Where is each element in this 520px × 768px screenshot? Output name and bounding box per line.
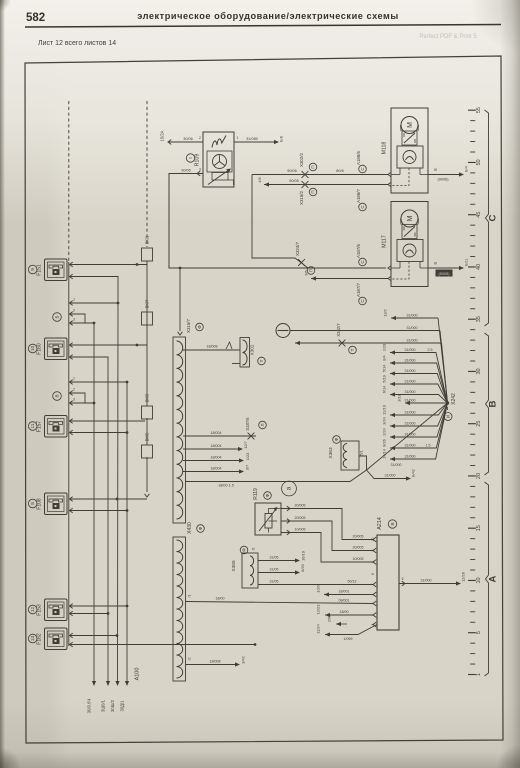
- svg-text:12/7: 12/7: [243, 441, 248, 449]
- svg-text:18/004: 18/004: [211, 467, 222, 471]
- page number 582: [26, 12, 45, 24]
- svg-text:20/005: 20/005: [295, 504, 306, 508]
- wire X242 ray 6/14: [382, 385, 448, 403]
- svg-text:X242: X242: [451, 393, 457, 405]
- svg-text:7: 7: [371, 583, 375, 585]
- svg-text:A100: A100: [135, 668, 141, 681]
- wire X365 out3 to A214 pin7: [258, 580, 376, 587]
- wire A214 pin4: [316, 615, 378, 641]
- svg-text:A214: A214: [377, 517, 383, 530]
- svg-text:13: 13: [30, 636, 35, 642]
- wire F157.1: [70, 419, 146, 424]
- svg-text:31/000: 31/000: [421, 579, 432, 583]
- coordinate ruler: [468, 107, 482, 676]
- svg-text:31/000: 31/000: [405, 348, 416, 352]
- A214 pin numbers: [371, 538, 375, 626]
- svg-text:X342/7: X342/7: [336, 323, 341, 337]
- svg-text:4/6: 4/6: [258, 177, 262, 182]
- svg-text:III: III: [434, 262, 437, 266]
- svg-text:F108: F108: [37, 498, 43, 510]
- wire M118 output: [428, 166, 469, 181]
- svg-text:18/008: 18/008: [207, 345, 218, 349]
- wire X242 ray 8/26: [382, 403, 448, 450]
- wire A214 output pin5: [399, 572, 466, 586]
- wire F153.1: [70, 604, 129, 609]
- svg-text:t: t: [188, 157, 193, 159]
- svg-text:C: C: [488, 214, 499, 221]
- wire R109 pin3 big L to M117: [169, 169, 386, 269]
- splice box ВК/1: [142, 235, 153, 261]
- wire M117 output: [428, 258, 469, 276]
- wire X242 ray 13/2: [383, 309, 448, 403]
- svg-text:Л: Л: [260, 423, 265, 426]
- node cluster 2: [53, 377, 129, 406]
- svg-text:III: III: [434, 168, 437, 172]
- wire F151.2 down to V3: [70, 274, 119, 303]
- svg-text:10/005: 10/005: [353, 557, 364, 561]
- svg-text:31/05: 31/05: [270, 556, 279, 560]
- svg-text:(9006): (9006): [438, 178, 450, 182]
- svg-text:10/005: 10/005: [295, 528, 306, 532]
- wire F151.1 to splice line: [70, 262, 148, 267]
- svg-text:M: M: [407, 215, 414, 221]
- control unit A214: [377, 517, 399, 630]
- svg-text:35: 35: [476, 316, 482, 322]
- svg-text:Ф: Ф: [334, 437, 339, 441]
- svg-text:8: 8: [30, 502, 35, 505]
- svg-text:Б: Б: [55, 315, 60, 318]
- motor unit M118: [382, 108, 429, 193]
- svg-text:5: 5: [476, 631, 482, 634]
- svg-text:20/005: 20/005: [353, 546, 364, 550]
- wire A214 pin1: [316, 584, 377, 597]
- splice box ВК/5: [142, 393, 153, 419]
- svg-text:40: 40: [476, 264, 482, 270]
- svg-text:18/004: 18/004: [211, 431, 222, 435]
- svg-text:Ф: Ф: [242, 548, 247, 552]
- svg-text:8/4: 8/4: [382, 354, 387, 360]
- svg-text:582: 582: [26, 12, 45, 24]
- resistor unit R109: [186, 132, 238, 187]
- wire X131 S187/6: [183, 417, 266, 440]
- svg-text:31/080: 31/080: [246, 137, 258, 141]
- connector X365: [231, 546, 258, 588]
- svg-text:Ф: Ф: [197, 325, 202, 329]
- svg-text:6/14: 6/14: [382, 385, 387, 393]
- svg-text:ВК/5: ВК/5: [145, 393, 150, 402]
- svg-text:20/005: 20/005: [295, 516, 306, 520]
- svg-text:2: 2: [73, 388, 75, 392]
- wire X365 out1: [258, 551, 306, 562]
- wire X242 ray 3/24: [382, 403, 448, 428]
- svg-text:1/059: 1/059: [344, 637, 353, 641]
- svg-text:31/05: 31/05: [270, 580, 279, 584]
- wire A214 pin2: [316, 605, 377, 618]
- svg-text:1/20: 1/20: [316, 584, 321, 592]
- wire X365 out2: [258, 563, 305, 574]
- svg-text:31/000: 31/000: [405, 422, 416, 426]
- wire X242 ray 5/19: [382, 375, 448, 403]
- splice node X242: [444, 393, 457, 421]
- svg-text:Т: Т: [350, 348, 355, 351]
- wire R119 out1 to A214 pin10: [281, 504, 376, 542]
- sheet caption: [38, 40, 116, 47]
- zone bracket A: [485, 482, 499, 676]
- svg-text:30/06: 30/06: [181, 169, 191, 173]
- svg-text:X315/2: X315/2: [299, 190, 304, 204]
- svg-text:/1: /1: [188, 595, 192, 598]
- svg-text:11/24: 11/24: [316, 623, 321, 633]
- svg-text:M118: M118: [382, 142, 388, 155]
- svg-text:а: а: [286, 486, 293, 490]
- svg-text:20/005: 20/005: [353, 535, 364, 539]
- svg-text:X302: X302: [250, 344, 255, 355]
- svg-text:18/00: 18/00: [340, 610, 349, 614]
- label A100: [135, 668, 141, 681]
- zone bracket C: [485, 110, 499, 326]
- svg-text:30: 30: [476, 368, 482, 374]
- wire branch X323/7: [252, 175, 308, 269]
- svg-text:1: 1: [73, 377, 75, 381]
- svg-text:1/23: 1/23: [245, 453, 250, 461]
- wire: left feeder bus (dashed top): [68, 101, 70, 646]
- svg-text:31/000: 31/000: [405, 369, 416, 373]
- svg-text:18/008: 18/008: [210, 660, 221, 664]
- wire X242 ray 3/41: [295, 323, 448, 403]
- svg-text:5/1: 5/1: [360, 451, 364, 456]
- wire X131 pin 1/23: [183, 453, 250, 463]
- svg-text:В: В: [390, 522, 395, 525]
- svg-text:30Ш/2: 30Ш/2: [110, 699, 115, 712]
- svg-text:9: 9: [371, 549, 375, 551]
- svg-text:1: 1: [73, 298, 75, 302]
- svg-text:ВК/7: ВК/7: [145, 299, 150, 308]
- fuse F108: [28, 493, 67, 515]
- wire R119 out3 to A214 pin8: [281, 528, 376, 565]
- svg-text:3/7: 3/7: [245, 465, 250, 470]
- svg-text:C: C: [360, 260, 365, 264]
- fuse F162: [28, 628, 67, 650]
- svg-text:C: C: [360, 205, 365, 209]
- svg-text:50/12: 50/12: [348, 580, 357, 584]
- svg-text:Ф: Ф: [265, 493, 270, 497]
- wire X131 pin 12/7: [183, 441, 248, 451]
- svg-text:X302/2: X302/2: [299, 152, 304, 166]
- svg-text:X323/7: X323/7: [295, 241, 300, 255]
- svg-text:9/6: 9/6: [305, 270, 309, 275]
- svg-text:31/000: 31/000: [405, 455, 416, 459]
- wire X242 ray 3/18: [397, 394, 448, 405]
- svg-text:31/000: 31/000: [405, 390, 416, 394]
- wire F108.1: [70, 497, 148, 502]
- svg-text:1: 1: [476, 673, 482, 676]
- svg-text:3/24: 3/24: [382, 416, 387, 424]
- wire X131 pin 3/7: [183, 465, 250, 474]
- svg-text:F157: F157: [37, 421, 43, 433]
- node cluster 1: [53, 298, 120, 326]
- svg-text:B: B: [488, 400, 499, 407]
- svg-text:2: 2: [199, 136, 201, 140]
- wire F162.2 long: [70, 642, 257, 647]
- svg-text:/2: /2: [188, 658, 192, 661]
- wire F153.2: [70, 611, 110, 616]
- label A187/7: [356, 282, 366, 304]
- wire X242 ray 12/19: [382, 403, 448, 417]
- label A188/6: [356, 150, 366, 172]
- svg-text:F151: F151: [37, 264, 43, 276]
- svg-text:30/0.6Ч: 30/0.6Ч: [87, 699, 92, 714]
- svg-text:электрическое оборудование/эле: электрическое оборудование/электрические…: [137, 11, 399, 21]
- wire F108.2: [70, 508, 129, 513]
- svg-text:M: M: [407, 122, 414, 128]
- wire X242 ray minus: [290, 326, 448, 403]
- svg-text:20: 20: [476, 473, 482, 479]
- svg-text:2/24: 2/24: [382, 427, 387, 435]
- wire X242 ray 5/14: [382, 364, 448, 403]
- wire R109 pin1 right: [234, 136, 284, 144]
- svg-text:F162: F162: [37, 633, 43, 645]
- svg-text:18/004: 18/004: [211, 444, 222, 448]
- wire V1 drop: [87, 323, 97, 713]
- svg-text:ВК/5: ВК/5: [145, 432, 150, 441]
- fuse F151: [28, 259, 67, 281]
- svg-text:31/000: 31/000: [391, 463, 402, 467]
- svg-text:31/000: 31/000: [407, 339, 418, 343]
- wire V4 drop: [120, 382, 130, 712]
- svg-text:В: В: [55, 394, 60, 397]
- svg-text:П: П: [309, 269, 314, 272]
- svg-text:Perfect PDF & Print 5: Perfect PDF & Print 5: [419, 34, 477, 40]
- svg-text:18/004: 18/004: [211, 456, 222, 460]
- svg-text:50: 50: [476, 159, 482, 165]
- wire V3 drop: [110, 303, 120, 712]
- connector cross X315/2: [299, 181, 317, 205]
- svg-text:31/000: 31/000: [405, 380, 416, 384]
- resistor R119: [253, 488, 281, 535]
- svg-text:F153: F153: [37, 604, 43, 616]
- wire X430 pin2: [186, 656, 246, 666]
- svg-text:3: 3: [73, 398, 75, 402]
- svg-text:16/19: 16/19: [301, 551, 306, 561]
- splice box ВК/5: [142, 432, 153, 458]
- svg-text:5/19: 5/19: [382, 375, 387, 383]
- svg-text:A: A: [488, 575, 499, 582]
- fuse F160: [28, 338, 67, 360]
- svg-text:6: 6: [371, 573, 375, 575]
- svg-text:12/19: 12/19: [382, 405, 387, 415]
- svg-text:3: 3: [199, 168, 201, 172]
- svg-text:12/26: 12/26: [461, 572, 466, 582]
- connector X131: [173, 337, 186, 523]
- connector cross X302/2: [299, 152, 317, 177]
- svg-text:12/23: 12/23: [316, 605, 321, 615]
- svg-text:Б/42: Б/42: [412, 469, 416, 477]
- svg-text:5/14: 5/14: [382, 364, 387, 372]
- svg-text:/3: /3: [252, 547, 256, 550]
- svg-text:X365: X365: [231, 560, 237, 572]
- svg-text:10: 10: [371, 538, 375, 542]
- fuse F157: [28, 416, 67, 438]
- svg-text:A187/6: A187/6: [356, 243, 361, 257]
- wire X131 bottom pin long: [186, 470, 367, 488]
- connector X363: [328, 436, 364, 470]
- wire F162.1: [70, 633, 119, 638]
- svg-text:И: И: [446, 415, 451, 418]
- wire X131 to X302: [183, 342, 240, 350]
- svg-text:31/000: 31/000: [405, 411, 416, 415]
- svg-text:X363: X363: [328, 447, 334, 459]
- svg-text:15: 15: [476, 525, 482, 531]
- faint watermark: [419, 34, 477, 40]
- label A188/7: [356, 188, 366, 210]
- svg-text:18/00: 18/00: [216, 597, 225, 601]
- label A187/6: [356, 243, 391, 270]
- svg-text:08/001: 08/001: [339, 599, 350, 603]
- svg-text:6/20: 6/20: [300, 563, 305, 571]
- wire to M118 pin2: [258, 177, 391, 187]
- svg-text:3Ш0/1: 3Ш0/1: [101, 699, 106, 712]
- svg-text:90/05: 90/05: [289, 179, 299, 183]
- wire R119 out2 to A214 pin9: [281, 516, 376, 553]
- svg-text:30/06: 30/06: [183, 137, 193, 141]
- splice box ВК/7: [142, 299, 153, 325]
- connector cross X323/7: [295, 241, 315, 274]
- svg-text:31/000: 31/000: [407, 326, 418, 330]
- svg-text:10: 10: [476, 577, 482, 583]
- svg-text:18/001: 18/001: [339, 590, 350, 594]
- svg-text:31/000: 31/000: [385, 474, 396, 478]
- svg-text:1/29: 1/29: [382, 344, 387, 352]
- svg-text:12: 12: [30, 607, 35, 613]
- wire: second feeder line (dashed top): [145, 101, 150, 497]
- wire F157.2: [70, 430, 129, 435]
- svg-text:25: 25: [476, 421, 482, 427]
- svg-text:1: 1: [237, 136, 239, 140]
- svg-text:Ф: Ф: [198, 526, 203, 530]
- wire F160.1: [70, 343, 148, 348]
- svg-text:Лист 12 всего листов 14: Лист 12 всего листов 14: [38, 40, 116, 47]
- ground terminal (minus): [276, 324, 290, 338]
- wire X363 to X242: [359, 403, 448, 470]
- wire to M118 pin1: [252, 169, 391, 177]
- svg-text:A187/7: A187/7: [356, 282, 361, 296]
- header rule: [25, 25, 501, 28]
- wire X363 branch out: [367, 469, 416, 480]
- label 1.5: [426, 444, 431, 448]
- circled node a: [282, 481, 297, 496]
- svg-text:1.5: 1.5: [426, 444, 431, 448]
- header title: [137, 11, 399, 21]
- svg-text:55: 55: [476, 107, 482, 113]
- svg-text:2/08: 2/08: [327, 615, 332, 623]
- wire X131 top pin X315/7: [178, 267, 204, 335]
- wire F160.2 down: [70, 355, 109, 681]
- svg-text:80/6: 80/6: [336, 169, 343, 173]
- svg-text:15/2А: 15/2А: [160, 130, 165, 141]
- zone bracket B: [485, 333, 499, 475]
- svg-text:Б/8: Б/8: [280, 136, 284, 142]
- svg-text:R109: R109: [195, 154, 201, 167]
- svg-text:X315/7: X315/7: [186, 318, 191, 332]
- wire V2 drop label: [101, 681, 111, 712]
- svg-text:F160: F160: [37, 343, 43, 355]
- wire X242 ray 1/29: [382, 344, 448, 403]
- wire R109 pin2 left: [160, 130, 204, 144]
- svg-text:31/000: 31/000: [407, 314, 418, 318]
- svg-text:9: 9: [30, 268, 35, 271]
- wire to M117 pin2: [305, 270, 392, 281]
- svg-text:Б/11: Б/11: [465, 258, 469, 266]
- svg-text:M117: M117: [382, 235, 388, 248]
- fuse F153: [28, 599, 67, 621]
- svg-text:П: П: [311, 165, 316, 168]
- svg-text:90/06: 90/06: [287, 169, 297, 173]
- svg-text:10: 10: [30, 346, 35, 352]
- svg-text:Б/4: Б/4: [465, 166, 469, 172]
- svg-text:A188/6: A188/6: [356, 150, 361, 164]
- svg-text:3: 3: [73, 318, 75, 322]
- svg-text:8/26: 8/26: [382, 439, 387, 447]
- svg-text:R119: R119: [253, 488, 259, 500]
- svg-text:3/42: 3/42: [241, 656, 246, 664]
- svg-text:31/000: 31/000: [405, 444, 416, 448]
- svg-text:A188/7: A188/7: [356, 188, 361, 202]
- svg-text:2.5: 2.5: [428, 348, 433, 352]
- svg-text:(9005): (9005): [439, 272, 451, 276]
- svg-text:18/00 1.5: 18/00 1.5: [218, 484, 234, 488]
- wire X242 ray 14/14: [382, 403, 448, 461]
- svg-text:S187/6: S187/6: [245, 417, 250, 431]
- svg-text:П: П: [311, 190, 316, 193]
- connector X302: [232, 338, 265, 368]
- svg-text:31/05: 31/05: [270, 568, 279, 572]
- svg-text:C: C: [360, 167, 365, 171]
- svg-text:11: 11: [30, 423, 35, 428]
- svg-text:45: 45: [476, 212, 482, 218]
- motor unit M117: [382, 202, 429, 287]
- svg-text:Т: Т: [259, 359, 264, 362]
- svg-text:13/2: 13/2: [383, 309, 388, 317]
- svg-text:5: 5: [402, 577, 404, 581]
- svg-text:31/000: 31/000: [405, 399, 416, 403]
- svg-text:X430: X430: [187, 522, 193, 534]
- svg-text:ВК/1: ВК/1: [145, 235, 150, 244]
- label 2.5: [428, 348, 433, 352]
- wire X242 ray 8/4: [382, 354, 448, 403]
- wire A214 pin3 from X430: [186, 595, 377, 606]
- svg-text:C: C: [360, 299, 365, 303]
- connector X430: [173, 522, 204, 681]
- svg-text:2: 2: [73, 309, 75, 313]
- svg-text:3/18: 3/18: [397, 394, 402, 402]
- svg-text:8: 8: [371, 561, 375, 563]
- svg-text:31/000: 31/000: [405, 359, 416, 363]
- svg-text:30Д/1: 30Д/1: [120, 700, 125, 712]
- wire X242 ray 2/24: [382, 403, 448, 439]
